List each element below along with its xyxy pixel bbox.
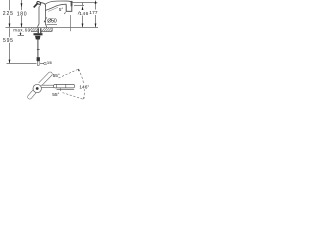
supply hose <box>37 40 39 58</box>
spout bottom edge <box>45 4 66 10</box>
swivel arc dashed <box>78 69 84 98</box>
dim line 225 vertical <box>9 0 11 27</box>
plan upper arm outline <box>39 72 53 86</box>
label 146deg background <box>79 84 90 89</box>
dim 146 up arrow <box>82 6 84 10</box>
leader tick 146 <box>78 11 80 14</box>
counter top line <box>6 27 99 29</box>
svg-text:max.60: max.60 <box>13 27 30 32</box>
spout top edge <box>45 1 72 4</box>
dim 180 bottom arrow <box>21 24 23 28</box>
svg-text:55°: 55° <box>53 73 60 79</box>
arc bottom arrow <box>83 97 85 99</box>
dim line 146 <box>82 3 84 28</box>
water direction arrow <box>64 12 66 14</box>
ref line top A <box>72 2 97 4</box>
dim 595 down arrow <box>9 60 11 64</box>
svg-text:146°: 146° <box>79 85 89 91</box>
leader dia50 <box>44 17 47 22</box>
faucet body left edge <box>38 7 39 28</box>
spout tip cap <box>71 1 73 6</box>
faucet lever <box>34 4 38 8</box>
dim 177 down arrow <box>95 24 97 28</box>
dim line 180 vertical <box>21 0 23 27</box>
dim 177 top blob <box>95 0 97 4</box>
spout outlet <box>66 2 72 11</box>
plan lower dash ray <box>63 93 84 100</box>
counter slab hatching <box>29 28 52 32</box>
dim line 177 <box>95 3 97 27</box>
svg-text:180: 180 <box>17 11 27 17</box>
ref line top B <box>74 5 84 7</box>
svg-text:146: 146 <box>79 11 88 17</box>
plan pivot circle <box>33 84 41 92</box>
svg-text:G3/8: G3/8 <box>43 61 51 66</box>
hose end ref line <box>7 63 44 65</box>
mounting washer <box>34 33 43 35</box>
svg-text:225: 225 <box>3 11 13 17</box>
dia50 underline <box>47 24 58 26</box>
plan lever joint tick 2 <box>56 85 58 88</box>
plan upper dash ray <box>59 69 79 78</box>
counter bottom line <box>31 31 52 33</box>
lever knob <box>36 1 41 5</box>
hose end fitting <box>37 57 40 61</box>
dim line 595 <box>9 28 11 63</box>
hose nipple <box>37 61 39 65</box>
lever root notch <box>39 5 41 7</box>
hose joint tick <box>37 48 40 50</box>
plan lever pill <box>54 84 75 88</box>
dim 225 arrow down <box>9 24 11 28</box>
faucet head <box>41 3 46 7</box>
max60 arrow <box>20 32 21 35</box>
counter right edge <box>51 28 53 32</box>
dim 180 top arrow <box>21 3 23 7</box>
threaded shank <box>38 28 41 33</box>
dim 146 down arrow <box>82 24 84 28</box>
aerator centerline <box>70 15 72 31</box>
svg-text:5°: 5° <box>59 7 64 12</box>
spout inner line <box>48 7 58 11</box>
plan hub arm <box>41 85 54 87</box>
plan under line <box>57 89 75 91</box>
plan pivot dot <box>36 87 39 90</box>
svg-text:177: 177 <box>89 10 98 16</box>
plan under tick <box>60 88 62 91</box>
plan lever joint tick <box>65 85 67 88</box>
svg-text:595: 595 <box>3 38 13 44</box>
leader arrowhead dia50 <box>44 21 46 23</box>
faucet body right edge <box>45 5 46 28</box>
max60 bottom line <box>18 35 25 37</box>
svg-text:Ø50: Ø50 <box>47 19 57 25</box>
plan lower-left arm outline <box>28 90 37 99</box>
mounting nut <box>35 36 40 40</box>
svg-text:55°: 55° <box>52 92 59 98</box>
arc top arrow <box>78 69 80 72</box>
